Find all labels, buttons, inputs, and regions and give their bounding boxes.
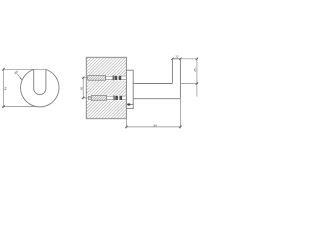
svg-text:12: 12 [175, 54, 179, 58]
svg-text:54: 54 [154, 123, 158, 127]
svg-text:60: 60 [79, 86, 83, 90]
svg-text:45: 45 [4, 87, 8, 91]
svg-text:25: 25 [193, 68, 197, 72]
